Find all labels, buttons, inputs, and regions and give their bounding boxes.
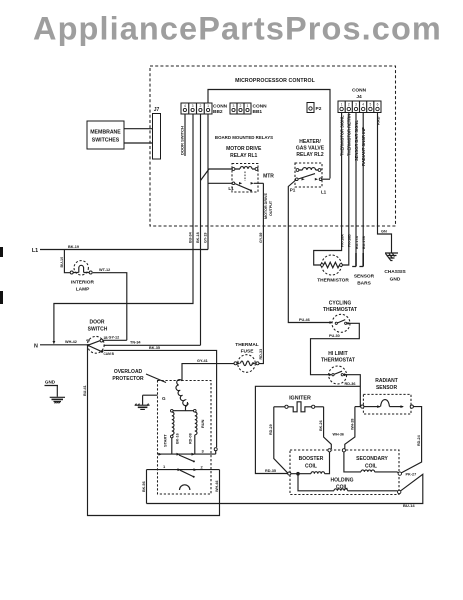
- svg-text:CYCLING: CYCLING: [329, 301, 352, 307]
- svg-text:BK-16: BK-16: [176, 433, 180, 444]
- svg-text:L1: L1: [228, 186, 234, 191]
- wire door switch BK-35 to motor: [104, 350, 217, 447]
- svg-text:P2: P2: [316, 106, 322, 112]
- motor centrifugal switch row A: [158, 451, 216, 455]
- svg-text:DOOR SWITCH: DOOR SWITCH: [179, 126, 184, 155]
- RL2 switch: [296, 178, 299, 181]
- svg-text:CHASSIS: CHASSIS: [384, 269, 406, 275]
- svg-text:3: 3: [355, 103, 357, 107]
- svg-text:PK-18B: PK-18B: [348, 234, 352, 247]
- wire P5 top link BB2 to RL2 switch: [208, 90, 330, 179]
- secondary coil: [344, 452, 361, 472]
- svg-text:1: 1: [341, 103, 343, 107]
- svg-text:GY-12: GY-12: [109, 336, 120, 340]
- wire L1 feed to burner circuit: [255, 386, 360, 473]
- svg-text:AppliancePartsPros.com: AppliancePartsPros.com: [33, 11, 442, 47]
- svg-text:HI LIMIT: HI LIMIT: [328, 351, 347, 357]
- terminal 3 circle: [214, 448, 217, 451]
- svg-text:MTR: MTR: [263, 174, 274, 180]
- wire L1 feed (top left): [40, 249, 208, 251]
- svg-text:WH-44: WH-44: [215, 480, 219, 492]
- svg-text:WT-12: WT-12: [99, 268, 110, 272]
- node booster/holding top 1: [328, 449, 331, 452]
- svg-text:SECONDARY: SECONDARY: [356, 456, 388, 462]
- node secondary/holding top 2: [342, 449, 345, 452]
- svg-text:RELAY RL2: RELAY RL2: [296, 152, 323, 158]
- svg-text:BU-14: BU-14: [403, 503, 415, 508]
- svg-text:4: 4: [362, 103, 364, 107]
- svg-text:COIL: COIL: [365, 464, 377, 470]
- svg-text:RD-33: RD-33: [259, 349, 263, 360]
- motor winding bus: [172, 410, 195, 412]
- wire J4 pin4 to sensor bar 2: [362, 113, 364, 254]
- wire BB2 pin1 stub DOOR SW: [184, 115, 186, 157]
- svg-text:BK-56: BK-56: [142, 481, 146, 492]
- svg-text:GN: GN: [381, 230, 387, 234]
- thermal fuse: [234, 342, 259, 372]
- wire BB2 pin2 vertical V2: [54, 115, 193, 342]
- svg-text:CONN: CONN: [352, 88, 367, 94]
- svg-text:HOLDING: HOLDING: [330, 478, 353, 484]
- svg-text:WH-36: WH-36: [333, 433, 344, 437]
- svg-text:PROTECTOR: PROTECTOR: [112, 376, 144, 382]
- svg-text:BU-34: BU-34: [189, 231, 193, 243]
- svg-text:INTERIOR: INTERIOR: [71, 280, 94, 286]
- svg-text:BK-19: BK-19: [68, 245, 79, 249]
- svg-text:1: 1: [207, 104, 209, 108]
- svg-text:MEMBRANE: MEMBRANE: [90, 130, 121, 136]
- chassis ground symbol (motor): [135, 404, 150, 410]
- node L1 inside coil box: [296, 472, 300, 476]
- svg-text:BK-35: BK-35: [149, 346, 160, 350]
- svg-text:J4: J4: [356, 94, 362, 100]
- radiant sensor: [361, 394, 414, 414]
- svg-text:PK-18A: PK-18A: [340, 234, 344, 247]
- svg-text:THERMISTOR: THERMISTOR: [317, 278, 349, 284]
- wire door switch neutral down BU-41: [88, 346, 220, 516]
- wire radiant left down to holding node: [345, 407, 355, 449]
- svg-text:BOARD MOUNTED RELAYS: BOARD MOUNTED RELAYS: [215, 135, 273, 140]
- svg-text:THERMOSTAT: THERMOSTAT: [323, 307, 357, 313]
- arrow into cycling thermostat: [330, 321, 333, 324]
- svg-text:BK-18: BK-18: [196, 232, 200, 243]
- svg-text:GY-59: GY-59: [259, 233, 263, 243]
- svg-text:P1: P1: [290, 188, 296, 193]
- thermistor: [317, 255, 349, 284]
- svg-text:WH-42: WH-42: [65, 340, 77, 344]
- gas valve coil assembly box: [290, 450, 399, 495]
- svg-text:DOOR: DOOR: [90, 320, 105, 326]
- RL2 coil: [298, 169, 320, 171]
- svg-text:MOTOR DRIVE: MOTOR DRIVE: [226, 146, 262, 152]
- wire N feed: [40, 344, 87, 346]
- svg-text:SWITCHES: SWITCHES: [92, 138, 120, 144]
- svg-text:BK-26: BK-26: [319, 420, 323, 431]
- RL1 actuator link: [244, 172, 246, 182]
- motor start winding: [172, 412, 174, 435]
- svg-text:3: 3: [233, 104, 235, 108]
- wire radiant sensor left branch: [355, 406, 361, 408]
- svg-text:OVERLOAD: OVERLOAD: [114, 369, 143, 375]
- svg-text:START: START: [162, 434, 167, 447]
- svg-text:BU-41: BU-41: [83, 385, 87, 396]
- scan edge artifact 2: [0, 291, 3, 304]
- svg-text:RD-29: RD-29: [269, 424, 273, 435]
- svg-text:PU-46: PU-46: [299, 318, 310, 322]
- svg-text:GY-41: GY-41: [197, 359, 208, 363]
- svg-text:CAM B: CAM B: [104, 352, 115, 356]
- svg-text:GAS VALVE: GAS VALVE: [296, 146, 325, 152]
- wire door switch to lamp GY-12: [103, 339, 127, 341]
- wire holding terminal to neutral bus: [147, 474, 423, 503]
- wire J4 pin1 to thermistor left: [314, 113, 342, 266]
- wire igniter right down to booster node: [324, 407, 332, 449]
- motor assembly box: [158, 381, 212, 495]
- svg-text:L1: L1: [321, 190, 327, 195]
- node igniter/booster junction: [288, 472, 291, 475]
- microprocessor control board box: [150, 66, 396, 226]
- pointer line overload protector: [146, 374, 166, 383]
- motor run winding: [195, 412, 197, 435]
- svg-text:4: 4: [184, 104, 186, 108]
- terminal secondary out: [398, 472, 401, 475]
- motor centrifugal switch row B: [147, 469, 220, 471]
- wire BB2 pin4 vertical V4: [207, 115, 209, 250]
- sensor bars: [352, 253, 374, 287]
- svg-text:COIL: COIL: [305, 464, 317, 470]
- svg-text:SWITCH: SWITCH: [88, 327, 108, 333]
- svg-text:2: 2: [348, 103, 350, 107]
- wire cycling out to hi limit: [311, 323, 360, 374]
- svg-text:MICROPROCESSOR CONTROL: MICROPROCESSOR CONTROL: [235, 78, 315, 84]
- svg-text:CONN: CONN: [253, 104, 268, 110]
- wire igniter left down to L1 node: [274, 407, 288, 473]
- svg-text:OUTPUT: OUTPUT: [269, 200, 273, 216]
- wire J4 pin2 to thermistor right: [342, 113, 349, 266]
- holding coil: [298, 474, 334, 491]
- svg-text:BB2: BB2: [213, 109, 223, 115]
- wire membrane to J7 (lower): [124, 142, 153, 144]
- wire J4 pin3 to sensor bar 1: [355, 113, 357, 254]
- svg-text:BOOSTER: BOOSTER: [299, 456, 324, 462]
- svg-text:FUSE: FUSE: [241, 349, 255, 355]
- RL1 switch: [232, 182, 235, 185]
- wire motor row B left to bottom bus: [146, 470, 148, 504]
- svg-text:2: 2: [199, 104, 201, 108]
- wire RL2 P1 output to cycling thermostat: [288, 180, 331, 323]
- svg-text:GND: GND: [45, 380, 56, 385]
- ground symbol (power cord): [45, 380, 66, 404]
- svg-text:THERMAL: THERMAL: [235, 342, 259, 348]
- svg-text:RD-36: RD-36: [345, 382, 356, 386]
- wire RL1 coil to board: [201, 169, 233, 181]
- svg-text:BB1: BB1: [253, 109, 263, 115]
- svg-text:MOTOR DRIVE: MOTOR DRIVE: [264, 193, 268, 219]
- connector J7: [153, 107, 161, 159]
- svg-text:RADIANT: RADIANT: [375, 378, 398, 384]
- wire membrane to J7 (upper): [124, 128, 153, 130]
- wire MTR motor drive output: [259, 183, 263, 363]
- connector CONN J4: [338, 88, 381, 113]
- motor ground wire: [143, 395, 158, 405]
- connector CONN BB2: [181, 103, 228, 115]
- wire lamp to door switch: [93, 273, 127, 341]
- svg-text:BU-17B: BU-17B: [362, 236, 366, 249]
- arrow into hi limit: [329, 373, 332, 376]
- relay RL1: [232, 164, 263, 193]
- svg-text:4A: 4A: [86, 339, 91, 343]
- svg-text:TN-34: TN-34: [130, 341, 141, 345]
- svg-text:6: 6: [377, 103, 379, 107]
- svg-text:SENSOR: SENSOR: [354, 274, 375, 280]
- svg-text:IGNITER: IGNITER: [289, 396, 311, 402]
- igniter: [274, 402, 324, 412]
- svg-text:1: 1: [247, 104, 249, 108]
- wire RL1 switch common to V4: [208, 182, 232, 184]
- cycling thermostat: [323, 301, 357, 333]
- motor rotor arc: [180, 485, 190, 490]
- svg-text:SENSOR: SENSOR: [376, 385, 398, 391]
- connector P2: [307, 103, 322, 113]
- svg-text:PU-30: PU-30: [329, 334, 340, 338]
- svg-text:PK-27: PK-27: [406, 473, 417, 477]
- junction arrow V2 to N wire: [53, 341, 56, 344]
- wire GY-41 thermal fuse to motor overload: [182, 364, 234, 381]
- svg-text:BU-17A: BU-17A: [355, 236, 359, 249]
- svg-text:L1: L1: [32, 248, 38, 254]
- scan edge artifact 1: [0, 247, 3, 257]
- svg-text:3: 3: [192, 104, 194, 108]
- terminal holding out: [398, 490, 401, 493]
- motor overload protector element: [176, 380, 188, 406]
- svg-text:HEATER/: HEATER/: [299, 139, 321, 145]
- connector CONN BB1: [230, 103, 267, 115]
- svg-text:GY-19: GY-19: [204, 233, 208, 243]
- interior lamp: [70, 261, 94, 293]
- wire door switch TN-34: [104, 344, 201, 346]
- wire lamp feed drop: [64, 250, 70, 273]
- svg-text:BARS: BARS: [357, 281, 371, 287]
- svg-text:BU-10: BU-10: [60, 257, 64, 268]
- svg-text:RD-08: RD-08: [188, 433, 192, 444]
- wire BB2 pin3 vertical V3 to door switch: [200, 115, 202, 346]
- hi limit thermostat: [321, 351, 355, 384]
- svg-text:N: N: [34, 344, 38, 350]
- svg-text:RELAY RL1: RELAY RL1: [230, 153, 257, 159]
- svg-text:2: 2: [240, 104, 242, 108]
- door switch: [86, 320, 115, 357]
- booster coil: [291, 473, 311, 475]
- wire hi limit out: [343, 375, 360, 407]
- wire J4 pin6 to chassis ground: [378, 113, 392, 253]
- svg-text:RD-24: RD-24: [417, 434, 421, 446]
- svg-text:G: G: [162, 396, 166, 401]
- svg-text:LAMP: LAMP: [76, 287, 90, 293]
- svg-text:RUN: RUN: [200, 419, 205, 428]
- svg-text:CONN: CONN: [213, 104, 228, 110]
- svg-text:GND: GND: [390, 277, 401, 283]
- svg-text:J7: J7: [154, 107, 160, 113]
- svg-text:RD-35: RD-35: [265, 469, 276, 473]
- svg-text:THERMOSTAT: THERMOSTAT: [321, 358, 355, 364]
- svg-text:5: 5: [370, 103, 372, 107]
- relay RL2: [295, 163, 330, 187]
- membrane switches block: [87, 121, 124, 149]
- svg-text:WH-28: WH-28: [350, 419, 354, 430]
- RL1 coil: [234, 168, 257, 170]
- wire radiant sensor right down: [402, 407, 422, 473]
- chassis ground symbol (right): [384, 253, 406, 283]
